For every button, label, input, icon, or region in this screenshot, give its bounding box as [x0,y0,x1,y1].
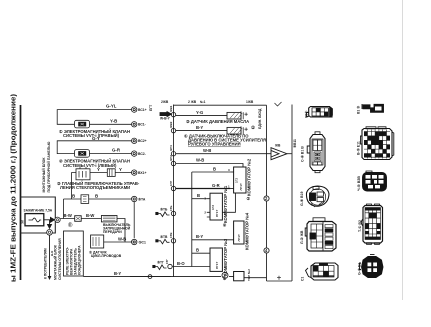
bus node 4 [171,161,175,165]
wire from SW1 [90,172,131,174]
svg-text:ЖГ2: ЖГ2 [169,155,173,162]
svg-text:ЖВ: ЖВ [274,144,281,148]
SW1 feed wire down [72,173,77,199]
oil pressure sensor [227,112,241,119]
svg-text:ЭЛ: ЭЛ [21,220,25,224]
svg-text:2ЖВ: 2ЖВ [161,100,169,104]
bus node tags [165,105,173,264]
bus pigtail 3 [153,261,172,270]
svg-text:⑤ТВ: ⑤ТВ [160,235,168,239]
B-O wire to U4 [173,266,210,268]
svg-text:Y-B: Y-B [110,118,117,123]
ground arrow [271,148,287,160]
igniter U2 [210,193,222,220]
bottom B-Y wire [83,276,171,278]
svg-text:⑤ТГ: ⑤ТГ [157,261,164,265]
svg-text:G-R: G-R [112,148,121,153]
svg-text:ЕДИН. ВХОД: ЕДИН. ВХОД [258,108,262,129]
connector K1 [107,169,115,177]
svg-text:ВС1+: ВС1+ [138,108,147,112]
svg-text:КОММУТАТОР №4: КОММУТАТОР №4 [244,212,249,250]
svg-text:ПЕРЕДАЧИ: ПЕРЕДАЧИ [103,230,122,234]
solenoid V2 [75,150,90,158]
svg-text:Y-G: Y-G [196,110,203,115]
W-B ground wire [176,153,271,155]
svg-text:B: B [72,193,75,198]
svg-text:Ч-⑤ ВЗВ: Ч-⑤ ВЗВ [356,176,361,191]
svg-text:ы 1MZ-FE выпуска до 11.2000 г.: ы 1MZ-FE выпуска до 11.2000 г.) (Продолж… [11,94,18,282]
svg-text:Y: Y [97,167,100,172]
svg-text:КОММУТАТОР №1: КОММУТАТОР №1 [223,185,228,223]
arrow into node [50,217,55,223]
svg-text:ЦИКЛ-ПРОВОДОВ: ЦИКЛ-ПРОВОДОВ [91,254,122,258]
G-R wire to U1 [176,188,231,190]
bus top rail [174,104,267,106]
svg-text:ЛЕНИЯ СТЕКЛОПОДЪЕМНИКАМИ: ЛЕНИЯ СТЕКЛОПОДЪЕМНИКАМИ [60,185,130,190]
terminal BX1 [132,170,137,175]
heater relay box [64,231,84,276]
main bus [173,105,175,277]
igniter U5 [234,272,244,281]
wire fuse to node [44,219,50,221]
svg-text:1Г2: 1Г2 [211,205,215,210]
svg-text:1ТБ: 1ТБ [169,206,173,211]
AC sensor box [91,235,104,248]
svg-text:ЛГ1Т: ЛГ1Т [215,210,219,217]
VVT right valve wiring bracket [57,110,131,125]
svg-text:1ЖВ: 1ЖВ [246,100,254,104]
AC sensor label [89,251,122,259]
svg-text:⑤TA: ⑤TA [138,197,146,201]
svg-text:ЛГ1Т: ЛГ1Т [237,234,241,241]
svg-text:B-W: B-W [86,213,94,218]
terminal 5C1 [132,239,137,244]
svg-text:ЖВ1: ЖВ1 [169,105,173,113]
terminal BC1- [132,122,137,127]
svg-text:ВС2-: ВС2- [138,152,146,156]
bottom rail tick [277,276,281,280]
svg-text:G-④ В19: G-④ В19 [299,192,304,206]
W-B wire from AC sensor [104,241,132,243]
svg-text:③ ДАТЧИК ДАВЛЕНИЯ МАСЛА: ③ ДАТЧИК ДАВЛЕНИЯ МАСЛА [186,119,249,124]
inline component [81,195,89,204]
connector E body [362,104,384,112]
B-Y wire [176,130,227,132]
svg-text:Л-② ЖВ: Л-② ЖВ [299,230,304,244]
svg-text:B: B [196,248,199,253]
U1 to U2 link [222,193,235,212]
terminal BC2+ [132,138,137,143]
PS switch label [184,134,266,147]
svg-text:МОНТАЖНЫЙ БЛОК: МОНТАЖНЫЙ БЛОК [42,157,46,193]
svg-text:②: ② [223,223,227,228]
svg-text:B-Y: B-Y [196,234,203,239]
svg-text:G-YL: G-YL [106,104,117,109]
svg-text:КОММУТАТОР №2: КОММУТАТОР №2 [247,158,252,196]
circled 2 node [222,272,228,278]
svg-text:2 ЖВ: 2 ЖВ [188,100,197,104]
solenoid V1 label [59,129,130,138]
svg-text:B-W: B-W [64,213,72,218]
vertical link 5TA to 5C1 [133,202,135,239]
svg-text:B: B [197,193,200,198]
svg-text:ВС2+: ВС2+ [138,139,147,143]
svg-text:1ТГ: 1ТГ [165,259,169,264]
svg-text:№1: №1 [200,100,206,104]
svg-text:W-B: W-B [203,148,211,153]
svg-text:К ПОТРЕБИТЕЛЯМ: К ПОТРЕБИТЕЛЯМ [44,248,48,279]
svg-text:3: 3 [228,168,230,172]
svg-text:⑪: ⑪ [68,222,73,229]
svg-text:②: ② [247,196,251,201]
svg-text:КОНДИЦИОНЕРА: КОНДИЦИОНЕРА [78,245,82,275]
power feed arrow [160,113,167,116]
svg-text:⑤C1: ⑤C1 [139,240,146,244]
right frame line 1 [266,105,268,281]
svg-text:⑤ТБ: ⑤ТБ [160,208,168,212]
svg-text:2: 2 [204,210,206,214]
svg-text:ЛГ1Т: ЛГ1Т [215,262,219,269]
svg-text:СИСТЕМЫ VVT-i (ЛЕВЫЙ): СИСТЕМЫ VVT-i (ЛЕВЫЙ) [63,163,117,168]
svg-text:ЕГТ: ЕГТ [149,105,153,111]
B wire to U4 [192,252,210,254]
B wire to U1 [192,172,231,267]
frame bottom [267,280,293,282]
svg-text:G-④ Е1: G-④ Е1 [357,263,362,275]
igniter U4 [210,248,222,271]
switch label [103,223,131,234]
svg-text:1ГР: 1ГР [169,181,173,186]
svg-text:РУЛЕВОГО УПРАВЛЕНИЯ: РУЛЕВОГО УПРАВЛЕНИЯ [188,142,241,147]
connector B body [307,132,325,173]
PS pressure switch [227,127,241,134]
node on block bottom [47,230,53,236]
connector H body [361,204,382,244]
solenoid V1 [75,120,90,128]
svg-text:ВС1-: ВС1- [138,123,146,127]
svg-text:B: B [213,166,216,171]
bus node 2 [171,128,175,132]
Y-G wire [176,115,227,117]
connector C body [306,186,329,207]
connector F body [361,127,394,160]
U2 pins [207,199,210,217]
svg-text:ЛГ1Т: ЛГ1Т [239,183,243,190]
svg-text:G-R: G-R [212,183,220,188]
U1 pin 3 [230,171,233,173]
connector D body [305,218,336,251]
terminal 5TA [132,196,137,201]
svg-text:С9①: С9① [305,111,309,118]
svg-text:ЖГ1: ЖГ1 [169,145,173,152]
svg-text:МОНТАЖНЫЙ БЛОК: МОНТАЖНЫЙ БЛОК [54,244,58,280]
svg-text:Т-① В2: Т-① В2 [357,220,362,232]
U1 pin 1 [230,188,233,190]
B wire with inline fuse [64,199,132,219]
svg-text:B-Y: B-Y [196,125,203,130]
B-Y wire to U3 [192,239,234,241]
svg-text:1Г2: 1Г2 [235,178,239,183]
svg-text:ТОР №2: ТОР №2 [247,269,251,281]
svg-text:W-B: W-B [118,237,126,242]
svg-text:B-Y: B-Y [114,271,121,276]
fuse F1 [25,214,44,226]
igniter U3 [234,221,244,244]
bus pigtail 1 [156,208,176,217]
W-B branch wire [176,164,243,168]
svg-text:ПОД ПРИБОРНОЙ ПАНЕЛЬЮ: ПОД ПРИБОРНОЙ ПАНЕЛЬЮ [47,141,51,192]
svg-text:G-Y: G-Y [92,136,100,141]
circled ref 2 [264,196,269,201]
page fold line [402,0,404,300]
bottom node [148,275,152,279]
circled ref 4 [264,248,269,253]
bottom rail [130,277,267,278]
connector G body [363,171,387,191]
rail labels [161,100,254,104]
svg-text:⑤В11: ⑤В11 [293,139,297,148]
svg-text:1ТВ: 1ТВ [169,233,173,238]
svg-text:W-B-Y: W-B-Y [160,117,171,121]
svg-text:ЖВ2: ЖВ2 [169,121,173,129]
svg-text:ВХ1+: ВХ1+ [138,171,146,175]
svg-text:С1: С1 [301,277,305,281]
SW1 label [57,181,140,190]
svg-text:В1 ②: В1 ② [357,106,361,114]
svg-text:С-④ В1 В: С-④ В1 В [300,146,305,162]
connector A body [309,107,332,118]
junction block box [21,197,56,233]
svg-text:Y: Y [119,167,122,172]
terminal BC2- [132,151,137,156]
B-W wire from block node [60,219,125,243]
VVT left valve wiring bracket [57,141,131,154]
svg-text:②: ② [251,125,255,130]
left border line [20,105,22,280]
igniter U1 [234,167,246,193]
right frame line 2 [291,105,293,282]
bus pigtail 2 [156,235,176,244]
terminal BC1+ [132,107,137,112]
tick on rail [275,102,282,106]
wire to consumers (down) [49,235,51,276]
svg-text:КОММУТАТОР №3: КОММУТАТОР №3 [223,238,228,276]
bus node 1 [171,112,175,116]
connector I body [360,255,384,278]
svg-text:ЗАЖИГАНИЕ 7,5А: ЗАЖИГАНИЕ 7,5А [24,209,53,213]
window master switch SW1 [76,169,90,180]
svg-text:СИСТЕМЫ ОТОПЛЕНИЯ: СИСТЕМЫ ОТОПЛЕНИЯ [58,238,62,280]
B wire to U2 [192,198,207,200]
svg-text:W-B: W-B [196,158,204,163]
connector J body [306,263,339,280]
inline diode D1 [75,216,82,222]
solenoid V2 label [59,159,130,168]
park-neutral switch [101,216,117,222]
bus node 3 [171,152,175,156]
node at block edge [55,217,60,222]
svg-text:B-O: B-O [177,261,185,266]
svg-text:В-⑤ Е11: В-⑤ Е11 [356,141,361,155]
svg-text:B: B [95,193,98,198]
wire junction down from fuse wire [49,220,51,224]
